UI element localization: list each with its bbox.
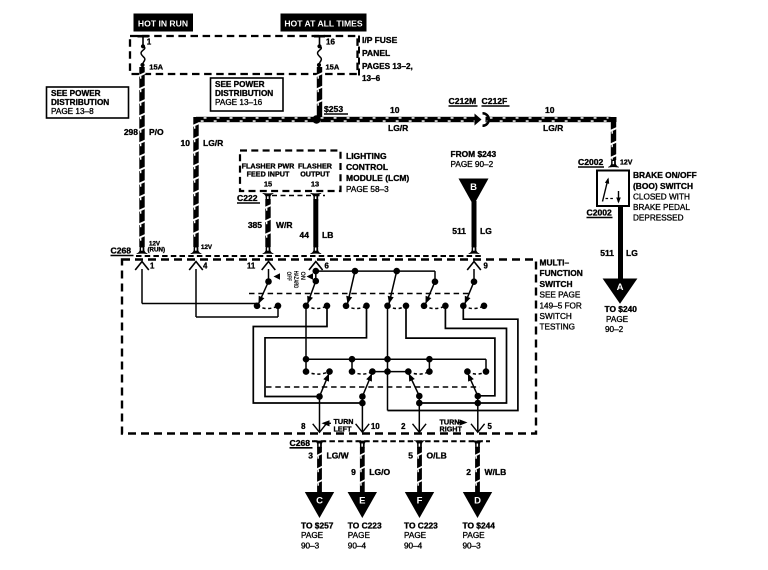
svg-text:PAGE: PAGE bbox=[463, 531, 486, 540]
svg-text:DEPRESSED: DEPRESSED bbox=[633, 214, 684, 223]
svg-text:90–3: 90–3 bbox=[301, 541, 320, 550]
svg-text:DISTRIBUTION: DISTRIBUTION bbox=[215, 89, 273, 98]
svg-text:TO $257: TO $257 bbox=[301, 520, 334, 530]
svg-text:FROM $243: FROM $243 bbox=[451, 149, 497, 159]
svg-text:LG/R: LG/R bbox=[388, 123, 408, 133]
svg-text:PAGE: PAGE bbox=[404, 531, 427, 540]
svg-text:TESTING: TESTING bbox=[540, 323, 575, 332]
svg-text:B: B bbox=[470, 182, 477, 193]
svg-text:11: 11 bbox=[247, 262, 256, 271]
svg-text:SEE POWER: SEE POWER bbox=[51, 89, 101, 98]
svg-text:P/O: P/O bbox=[149, 127, 164, 137]
svg-text:PAGE 13–16: PAGE 13–16 bbox=[215, 98, 263, 107]
svg-text:1: 1 bbox=[147, 37, 152, 46]
svg-text:F: F bbox=[417, 496, 423, 507]
svg-text:(RUN): (RUN) bbox=[148, 247, 166, 254]
svg-text:C2002: C2002 bbox=[578, 157, 604, 167]
svg-text:(BOO) SWITCH: (BOO) SWITCH bbox=[633, 181, 693, 191]
svg-text:PAGES 13–2,: PAGES 13–2, bbox=[362, 62, 413, 71]
svg-text:CONTROL: CONTROL bbox=[346, 162, 388, 172]
svg-text:FUNCTION: FUNCTION bbox=[540, 268, 583, 278]
svg-text:12V: 12V bbox=[201, 244, 213, 251]
svg-text:10: 10 bbox=[181, 138, 191, 148]
svg-text:TO $240: TO $240 bbox=[605, 304, 638, 314]
svg-text:10: 10 bbox=[390, 105, 400, 115]
svg-text:OFF: OFF bbox=[285, 272, 292, 282]
svg-text:10: 10 bbox=[545, 105, 555, 115]
svg-text:TO C223: TO C223 bbox=[404, 520, 438, 530]
svg-text:PANEL: PANEL bbox=[362, 48, 390, 58]
svg-text:HAZARD: HAZARD bbox=[292, 271, 299, 289]
svg-text:90–4: 90–4 bbox=[404, 541, 423, 550]
svg-text:385: 385 bbox=[248, 220, 262, 230]
svg-text:PAGE 90–2: PAGE 90–2 bbox=[451, 160, 494, 169]
svg-text:TO $244: TO $244 bbox=[463, 520, 496, 530]
svg-text:I/P FUSE: I/P FUSE bbox=[362, 35, 398, 45]
svg-text:PAGE: PAGE bbox=[301, 531, 324, 540]
svg-text:1: 1 bbox=[150, 262, 155, 271]
svg-text:SEE POWER: SEE POWER bbox=[215, 80, 265, 89]
svg-text:C2002: C2002 bbox=[587, 208, 613, 218]
svg-text:W/LB: W/LB bbox=[485, 467, 507, 477]
svg-text:3: 3 bbox=[308, 451, 313, 461]
svg-text:CLOSED WITH: CLOSED WITH bbox=[633, 193, 690, 202]
svg-text:10: 10 bbox=[371, 422, 380, 431]
svg-text:2: 2 bbox=[466, 467, 471, 477]
svg-text:HOT IN RUN: HOT IN RUN bbox=[138, 19, 188, 29]
svg-text:SWITCH: SWITCH bbox=[540, 279, 573, 289]
svg-text:8: 8 bbox=[301, 422, 306, 431]
svg-text:9: 9 bbox=[484, 262, 489, 271]
svg-text:6: 6 bbox=[325, 262, 330, 271]
svg-text:LG/R: LG/R bbox=[543, 123, 563, 133]
svg-text:LG: LG bbox=[626, 248, 638, 258]
svg-text:13–6: 13–6 bbox=[362, 74, 381, 83]
svg-text:OUTPUT: OUTPUT bbox=[300, 170, 330, 179]
svg-text:DISTRIBUTION: DISTRIBUTION bbox=[51, 98, 109, 107]
svg-text:C268: C268 bbox=[290, 438, 311, 448]
svg-text:C: C bbox=[316, 496, 323, 507]
svg-text:E: E bbox=[359, 496, 365, 507]
svg-text:15A: 15A bbox=[149, 63, 163, 72]
svg-text:LIGHTING: LIGHTING bbox=[346, 151, 387, 161]
svg-text:5: 5 bbox=[488, 422, 493, 431]
svg-text:12V: 12V bbox=[620, 160, 633, 167]
svg-text:HOT AT ALL TIMES: HOT AT ALL TIMES bbox=[284, 19, 363, 29]
svg-text:MULTI–: MULTI– bbox=[540, 258, 570, 268]
svg-text:LB: LB bbox=[322, 230, 333, 240]
svg-text:$253: $253 bbox=[324, 104, 343, 114]
svg-text:15: 15 bbox=[264, 180, 272, 189]
svg-text:9: 9 bbox=[351, 467, 356, 477]
svg-text:PAGE 58–3: PAGE 58–3 bbox=[346, 185, 389, 194]
svg-text:W/R: W/R bbox=[276, 220, 293, 230]
svg-text:D: D bbox=[474, 496, 481, 507]
svg-text:PAGE 13–8: PAGE 13–8 bbox=[51, 107, 94, 116]
svg-text:TO C223: TO C223 bbox=[348, 520, 382, 530]
svg-text:90–2: 90–2 bbox=[605, 325, 624, 334]
svg-text:LG/O: LG/O bbox=[369, 467, 390, 477]
svg-text:SWITCH: SWITCH bbox=[540, 312, 572, 321]
svg-text:C268: C268 bbox=[111, 246, 132, 256]
svg-text:SEE PAGE: SEE PAGE bbox=[540, 291, 581, 300]
svg-text:C212F: C212F bbox=[482, 96, 508, 106]
svg-text:298: 298 bbox=[124, 127, 138, 137]
svg-text:LG: LG bbox=[480, 226, 492, 236]
svg-text:13: 13 bbox=[311, 180, 319, 189]
svg-text:PAGE: PAGE bbox=[348, 531, 371, 540]
svg-text:C212M: C212M bbox=[449, 96, 477, 106]
svg-text:LG/R: LG/R bbox=[203, 138, 223, 148]
svg-text:511: 511 bbox=[600, 248, 614, 258]
svg-text:C222: C222 bbox=[237, 193, 258, 203]
svg-text:BRAKE PEDAL: BRAKE PEDAL bbox=[633, 203, 690, 212]
svg-text:BRAKE ON/OFF: BRAKE ON/OFF bbox=[633, 170, 697, 180]
svg-text:MODULE (LCM): MODULE (LCM) bbox=[346, 173, 409, 183]
svg-text:5: 5 bbox=[408, 451, 413, 461]
svg-text:15A: 15A bbox=[326, 63, 340, 72]
svg-text:O/LB: O/LB bbox=[427, 451, 447, 461]
svg-text:PAGE: PAGE bbox=[606, 315, 629, 324]
svg-text:ON: ON bbox=[299, 272, 306, 281]
svg-text:44: 44 bbox=[300, 230, 310, 240]
svg-text:90–3: 90–3 bbox=[463, 541, 482, 550]
svg-text:149–5 FOR: 149–5 FOR bbox=[540, 301, 582, 310]
svg-text:FEED INPUT: FEED INPUT bbox=[247, 170, 290, 179]
svg-text:90–4: 90–4 bbox=[348, 541, 367, 550]
svg-text:RIGHT: RIGHT bbox=[440, 425, 463, 434]
svg-text:511: 511 bbox=[452, 226, 466, 236]
svg-text:4: 4 bbox=[203, 262, 208, 271]
svg-text:LEFT: LEFT bbox=[334, 424, 353, 433]
svg-text:2: 2 bbox=[401, 422, 406, 431]
svg-text:A: A bbox=[617, 282, 624, 293]
svg-text:16: 16 bbox=[326, 37, 335, 46]
svg-text:LG/W: LG/W bbox=[327, 451, 350, 461]
